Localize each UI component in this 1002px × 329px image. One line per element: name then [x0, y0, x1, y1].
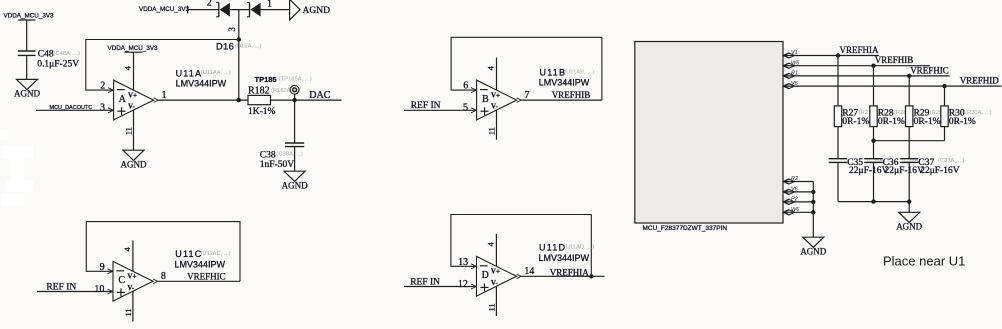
wire: [908, 162, 910, 201]
svg-text:(C48A, ...): (C48A, ...): [54, 51, 80, 57]
net VREFHIC output wire: [158, 280, 240, 282]
svg-text:(C37A, ...): (C37A, ...): [938, 158, 964, 164]
net VREFHIA output wire: [521, 275, 604, 277]
svg-text:11: 11: [487, 127, 497, 135]
MCU pin V6: [784, 189, 790, 194]
net REF_IN wire (U11B): [404, 109, 477, 111]
svg-text:1nF-50V: 1nF-50V: [260, 160, 294, 170]
wire net VREFHIC: [783, 75, 950, 77]
svg-text:R2: R2: [791, 176, 798, 182]
wire net VREFHIB: [783, 65, 930, 67]
capacitor C48: [18, 50, 36, 52]
wire R29 down (crosses link): [908, 127, 910, 159]
MCU pin R1: [784, 73, 790, 78]
svg-text:4: 4: [485, 242, 495, 247]
op-amp U11C feedback wire: [86, 222, 240, 282]
svg-text:12: 12: [458, 279, 468, 290]
svg-text:C: C: [118, 275, 125, 286]
wire MCU pin V6 to AGND bus: [783, 191, 813, 193]
MCU pin W6: [784, 210, 790, 215]
svg-text:(R30A, ...): (R30A, ...): [965, 110, 991, 116]
svg-text:VDDA_MCU_3V3: VDDA_MCU_3V3: [4, 12, 55, 19]
svg-text:MCU_F28377DZWT_337PIN: MCU_F28377DZWT_337PIN: [643, 225, 728, 232]
svg-text:REF IN: REF IN: [46, 283, 76, 293]
wire R27 to C35: [837, 127, 839, 159]
svg-text:D16: D16: [216, 41, 234, 52]
svg-text:VREFHIA: VREFHIA: [550, 267, 590, 277]
svg-text:11: 11: [124, 127, 134, 135]
svg-text:DAC: DAC: [309, 90, 330, 101]
ground AGND (arrow right): [290, 0, 300, 20]
svg-text:(C38A, ...): (C38A, ...): [276, 151, 302, 157]
svg-text:V-: V-: [491, 103, 499, 111]
net REF_IN wire (U11D): [404, 286, 477, 288]
capacitor C37 22μF-16V: [900, 158, 919, 160]
svg-text:VDDA_MCU_3V3: VDDA_MCU_3V3: [139, 6, 190, 13]
MCU pin W5: [784, 63, 790, 68]
svg-text:V-: V-: [127, 284, 135, 292]
svg-text:REF IN: REF IN: [410, 277, 440, 287]
svg-text:V+: V+: [128, 91, 137, 99]
op-amp U11A feedback wire: [86, 40, 239, 91]
svg-text:11: 11: [123, 308, 133, 316]
svg-text:V1: V1: [791, 50, 798, 56]
watermark blob (faint): [0, 130, 34, 205]
svg-text:4: 4: [122, 247, 132, 252]
svg-text:LMV344IPW: LMV344IPW: [539, 253, 590, 263]
capacitor C35 22μF-16V: [829, 158, 848, 160]
link wire R28-R30: [874, 140, 945, 142]
svg-text:VREFHIC: VREFHIC: [187, 272, 226, 282]
svg-text:0.1μF-25V: 0.1μF-25V: [37, 60, 79, 70]
ground AGND (MCU pins): [803, 237, 824, 247]
wire: [26, 55, 28, 79]
svg-text:VREFHIA: VREFHIA: [840, 45, 880, 55]
svg-text:1: 1: [162, 90, 167, 101]
MCU pin R2: [784, 179, 790, 184]
wire MCU pin W6 to AGND bus: [783, 211, 813, 213]
svg-text:R182: R182: [248, 86, 270, 97]
svg-text:0R-1%: 0R-1%: [842, 117, 869, 127]
svg-text:(U11AC, ...): (U11AC, ...): [201, 251, 231, 257]
svg-text:TP185: TP185: [255, 75, 277, 84]
svg-text:V+: V+: [491, 91, 500, 99]
resistor R182: [248, 95, 271, 104]
junction node VREFHID: [942, 84, 946, 88]
svg-text:P2: P2: [791, 197, 798, 203]
op-amp U11C: [113, 261, 153, 301]
bottom rail wire: [838, 201, 909, 203]
junction node VREFHIC: [907, 74, 911, 78]
wire R28 down: [873, 127, 875, 159]
wire net VREFHIA: [783, 55, 879, 57]
wire MCU pin P2 to AGND bus: [783, 201, 813, 203]
svg-text:8: 8: [161, 271, 166, 282]
svg-text:REF IN: REF IN: [411, 101, 441, 111]
MCU pin P2: [784, 199, 790, 204]
wire: [271, 99, 295, 101]
wire R30 to link: [944, 127, 946, 141]
wire: [230, 9, 250, 11]
net VREFHIB output wire: [521, 99, 602, 101]
MCU pin V1: [784, 53, 790, 58]
svg-text:W6: W6: [791, 207, 800, 213]
ground AGND: [17, 79, 38, 89]
svg-text:9: 9: [100, 262, 105, 273]
svg-text:0R-1%: 0R-1%: [878, 117, 905, 127]
MCU pin V5: [784, 84, 790, 89]
junction node VREFHIB: [871, 63, 875, 67]
wire: [261, 9, 290, 11]
svg-text:D: D: [482, 270, 489, 281]
svg-text:LMV344IPW: LMV344IPW: [539, 77, 590, 87]
ground AGND (C38): [284, 171, 305, 181]
diode D16 pin1 (right half): [249, 2, 251, 16]
wire: [873, 162, 875, 201]
svg-text:V-: V-: [128, 103, 136, 111]
svg-text:0R-1%: 0R-1%: [914, 117, 941, 127]
resistor R27 0R-1%: [837, 56, 839, 106]
resistor R28 0R-1%: [873, 66, 875, 106]
resistor R30 0R-1%: [944, 86, 946, 106]
svg-text:22μF-16V: 22μF-16V: [920, 166, 960, 176]
svg-text:2: 2: [207, 0, 212, 8]
svg-text:AGND: AGND: [14, 89, 40, 99]
wire net VREFHID: [783, 85, 1002, 87]
MCU block U1: [635, 42, 783, 224]
svg-text:V5: V5: [791, 81, 799, 87]
svg-text:1K-1%: 1K-1%: [248, 107, 276, 117]
svg-text:7: 7: [525, 90, 530, 101]
net DAC wire: [295, 99, 342, 101]
capacitor C36 22μF-16V: [864, 158, 883, 160]
svg-text:LMV344IPW: LMV344IPW: [176, 78, 227, 88]
svg-text:VREFHIC: VREFHIC: [910, 65, 949, 75]
svg-text:14: 14: [524, 266, 534, 277]
svg-text:5: 5: [463, 103, 468, 114]
svg-text:R1: R1: [791, 71, 798, 77]
svg-text:C48: C48: [38, 50, 54, 60]
svg-text:(U11AD, ...): (U11AD, ...): [564, 245, 594, 251]
ground AGND (U11A): [123, 150, 144, 160]
svg-text:3: 3: [227, 27, 237, 32]
svg-text:2: 2: [100, 81, 105, 92]
wire: [837, 162, 839, 201]
svg-text:0R-1%: 0R-1%: [949, 117, 976, 127]
svg-text:V-: V-: [491, 279, 499, 287]
svg-text:(U11AB, ...): (U11AB, ...): [564, 69, 594, 75]
wire: [294, 147, 296, 172]
junction node VREFHIA: [836, 53, 840, 57]
op-amp U11B feedback wire: [451, 37, 602, 100]
svg-text:AGND: AGND: [303, 6, 331, 16]
svg-text:AGND: AGND: [121, 160, 147, 170]
svg-text:AGND: AGND: [896, 222, 922, 232]
svg-text:Place near U1: Place near U1: [883, 254, 965, 269]
U11A output wire: [158, 99, 248, 101]
svg-text:(U11AA, ...): (U11AA, ...): [201, 70, 231, 76]
svg-text:U11A: U11A: [176, 68, 203, 78]
svg-text:MCU_DACOUTC: MCU_DACOUTC: [50, 105, 93, 111]
svg-text:VREFHIB: VREFHIB: [552, 90, 591, 100]
svg-text:V6: V6: [791, 187, 799, 193]
svg-text:W5: W5: [791, 60, 800, 66]
svg-text:13: 13: [458, 257, 468, 268]
svg-text:10: 10: [94, 284, 104, 295]
svg-text:V+: V+: [127, 273, 136, 281]
net REF_IN wire (U11C): [37, 291, 113, 293]
svg-text:U11D: U11D: [539, 243, 566, 253]
svg-text:6: 6: [463, 81, 468, 92]
wire MCU pin R2 to AGND bus: [783, 181, 813, 183]
op-amp U11A: [114, 80, 154, 120]
svg-text:LMV344IPW: LMV344IPW: [175, 260, 226, 270]
svg-text:3: 3: [100, 103, 105, 114]
D16 pin3 wire down / feedback node: [238, 10, 240, 101]
svg-text:VREFHID: VREFHID: [960, 76, 1000, 86]
svg-text:B: B: [482, 94, 489, 105]
svg-text:U11C: U11C: [175, 249, 202, 259]
wire: [188, 9, 219, 11]
svg-text:AGND: AGND: [282, 181, 308, 191]
op-amp U11D feedback wire: [451, 215, 591, 277]
svg-text:U11B: U11B: [540, 67, 567, 77]
svg-text:11: 11: [486, 303, 496, 311]
diode D16 pin2 (left half): [218, 2, 220, 16]
svg-text:1: 1: [267, 0, 272, 9]
capacitor C38: [294, 100, 296, 143]
wire: [26, 20, 28, 51]
svg-text:C38: C38: [260, 150, 276, 160]
svg-text:(TP185A, ...): (TP185A, ...): [279, 77, 312, 83]
AGND bus wire: [812, 182, 814, 238]
op-amp U11D: [477, 256, 517, 296]
svg-text:VDDA_MCU_3V3: VDDA_MCU_3V3: [108, 45, 159, 52]
net MCU_DACOUTC input wire: [36, 109, 114, 111]
ground AGND (caps): [908, 202, 910, 213]
svg-text:V+: V+: [491, 268, 500, 276]
svg-text:A: A: [119, 94, 127, 105]
svg-text:VREFHIB: VREFHIB: [875, 55, 914, 65]
op-amp U11B: [477, 80, 517, 120]
resistor R29 0R-1%: [908, 76, 910, 106]
test point TP185: [294, 94, 296, 100]
svg-text:AGND: AGND: [800, 247, 826, 257]
